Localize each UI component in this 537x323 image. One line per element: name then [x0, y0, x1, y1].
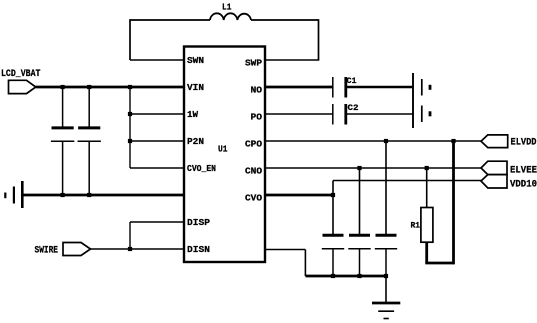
svg-text:NO: NO	[251, 85, 263, 96]
junction ELVDD drop	[451, 139, 455, 143]
wire left pin bus vertical	[129, 87, 131, 168]
wire DISN	[91, 248, 185, 250]
svg-text:C1: C1	[347, 76, 357, 86]
node ELVDD connector	[481, 135, 537, 149]
svg-text:VIN: VIN	[187, 82, 204, 93]
svg-text:U1: U1	[218, 144, 228, 155]
wire vertical to cap1	[332, 195, 334, 235]
junction VIN bus	[128, 85, 132, 89]
wire vertical to cap2	[359, 168, 361, 235]
resistor R1	[411, 168, 433, 263]
svg-text:P2N: P2N	[187, 136, 204, 147]
junction ELVEE cap2	[357, 166, 361, 170]
svg-text:SWP: SWP	[245, 58, 262, 69]
svg-text:SWN: SWN	[187, 55, 204, 66]
junction 1W bus	[128, 112, 132, 116]
svg-text:PO: PO	[251, 112, 263, 123]
wire 1W stub	[130, 113, 184, 115]
wire vertical to cap3	[385, 141, 387, 235]
capacitor input cap A	[51, 87, 74, 195]
wire right vertical bus plate	[412, 73, 414, 128]
junction gnd cap B	[87, 193, 91, 197]
svg-text:CVO_EN: CVO_EN	[187, 163, 216, 174]
junction VIN cap B	[87, 85, 91, 89]
junction VIN cap A	[61, 85, 65, 89]
svg-text:CNO: CNO	[245, 166, 262, 177]
capacitor out cap 1	[322, 235, 344, 276]
junction DISP DISN	[128, 247, 132, 251]
junction ELVEE R1	[425, 166, 429, 170]
inductor L1	[210, 3, 251, 21]
wire ground drop	[385, 276, 387, 303]
svg-text:1W: 1W	[187, 109, 198, 120]
capacitor out cap 3	[375, 235, 397, 276]
capacitor plate lower right	[421, 106, 423, 123]
wire SWP drop vertical	[318, 19, 320, 60]
svg-text:L1: L1	[222, 3, 232, 13]
wire DISP	[130, 222, 184, 249]
wire chip bottom right pin	[265, 250, 305, 277]
junction CVO VDD10	[331, 193, 335, 197]
node SWIRE connector	[35, 243, 91, 257]
wire top rail right segment	[251, 19, 319, 21]
wire elbow R1 to ELVDD drop	[425, 262, 453, 265]
wire ELVDD drop vertical	[452, 141, 455, 264]
wire top rail left segment	[130, 19, 210, 21]
wire CVO_EN stub	[130, 167, 184, 169]
junction gnd cap A	[61, 193, 65, 197]
ground bottom	[372, 303, 400, 319]
op-amp U1 chip body	[184, 47, 265, 263]
wire NO	[265, 86, 333, 89]
junction P2N bus	[128, 139, 132, 143]
svg-text:CVO: CVO	[245, 193, 262, 204]
wire bottom rail	[305, 275, 386, 278]
node LCD_VBAT connector	[1, 68, 41, 94]
svg-text:R1: R1	[411, 221, 421, 231]
node VDD10 connector	[481, 175, 537, 191]
wire CVO	[265, 194, 333, 197]
node ELVEE connector	[481, 161, 537, 176]
svg-text:SWIRE: SWIRE	[35, 246, 59, 257]
svg-text:DISP: DISP	[187, 217, 210, 228]
svg-text:CPO: CPO	[245, 139, 262, 150]
svg-text:DISN: DISN	[187, 244, 210, 255]
wire P2N stub	[130, 140, 184, 142]
node stub upper	[429, 85, 432, 90]
junction bottom cap2	[357, 274, 361, 278]
svg-text:LCD_VBAT: LCD_VBAT	[1, 68, 41, 80]
wire C1 to bus	[346, 86, 413, 88]
wire CNO to ELVEE	[265, 167, 481, 169]
ground left	[5, 181, 22, 208]
svg-text:VDD10: VDD10	[510, 180, 537, 191]
capacitor C2	[333, 103, 359, 125]
wire SWN drop vertical	[129, 19, 131, 60]
node stub lower	[429, 111, 432, 116]
wire PO	[265, 113, 333, 115]
wire VDD10 row	[333, 181, 481, 196]
wire SWN stub	[130, 59, 184, 61]
junction ELVDD cap3	[384, 139, 388, 143]
capacitor input cap B	[78, 87, 101, 195]
junction bottom cap1	[331, 274, 335, 278]
wire SWP stub	[265, 59, 319, 61]
wire ground rail left	[23, 194, 184, 197]
svg-text:ELVEE: ELVEE	[510, 166, 537, 177]
wire C2 to bus	[346, 113, 413, 115]
capacitor C1	[333, 76, 357, 98]
svg-text:ELVDD: ELVDD	[511, 138, 537, 149]
capacitor plate upper right	[421, 79, 423, 96]
capacitor out cap 2	[348, 235, 370, 276]
wire CPO to ELVDD	[265, 140, 481, 142]
wire VIN	[36, 86, 184, 89]
svg-text:C2: C2	[348, 103, 359, 113]
junction bottom cap3	[384, 274, 388, 278]
